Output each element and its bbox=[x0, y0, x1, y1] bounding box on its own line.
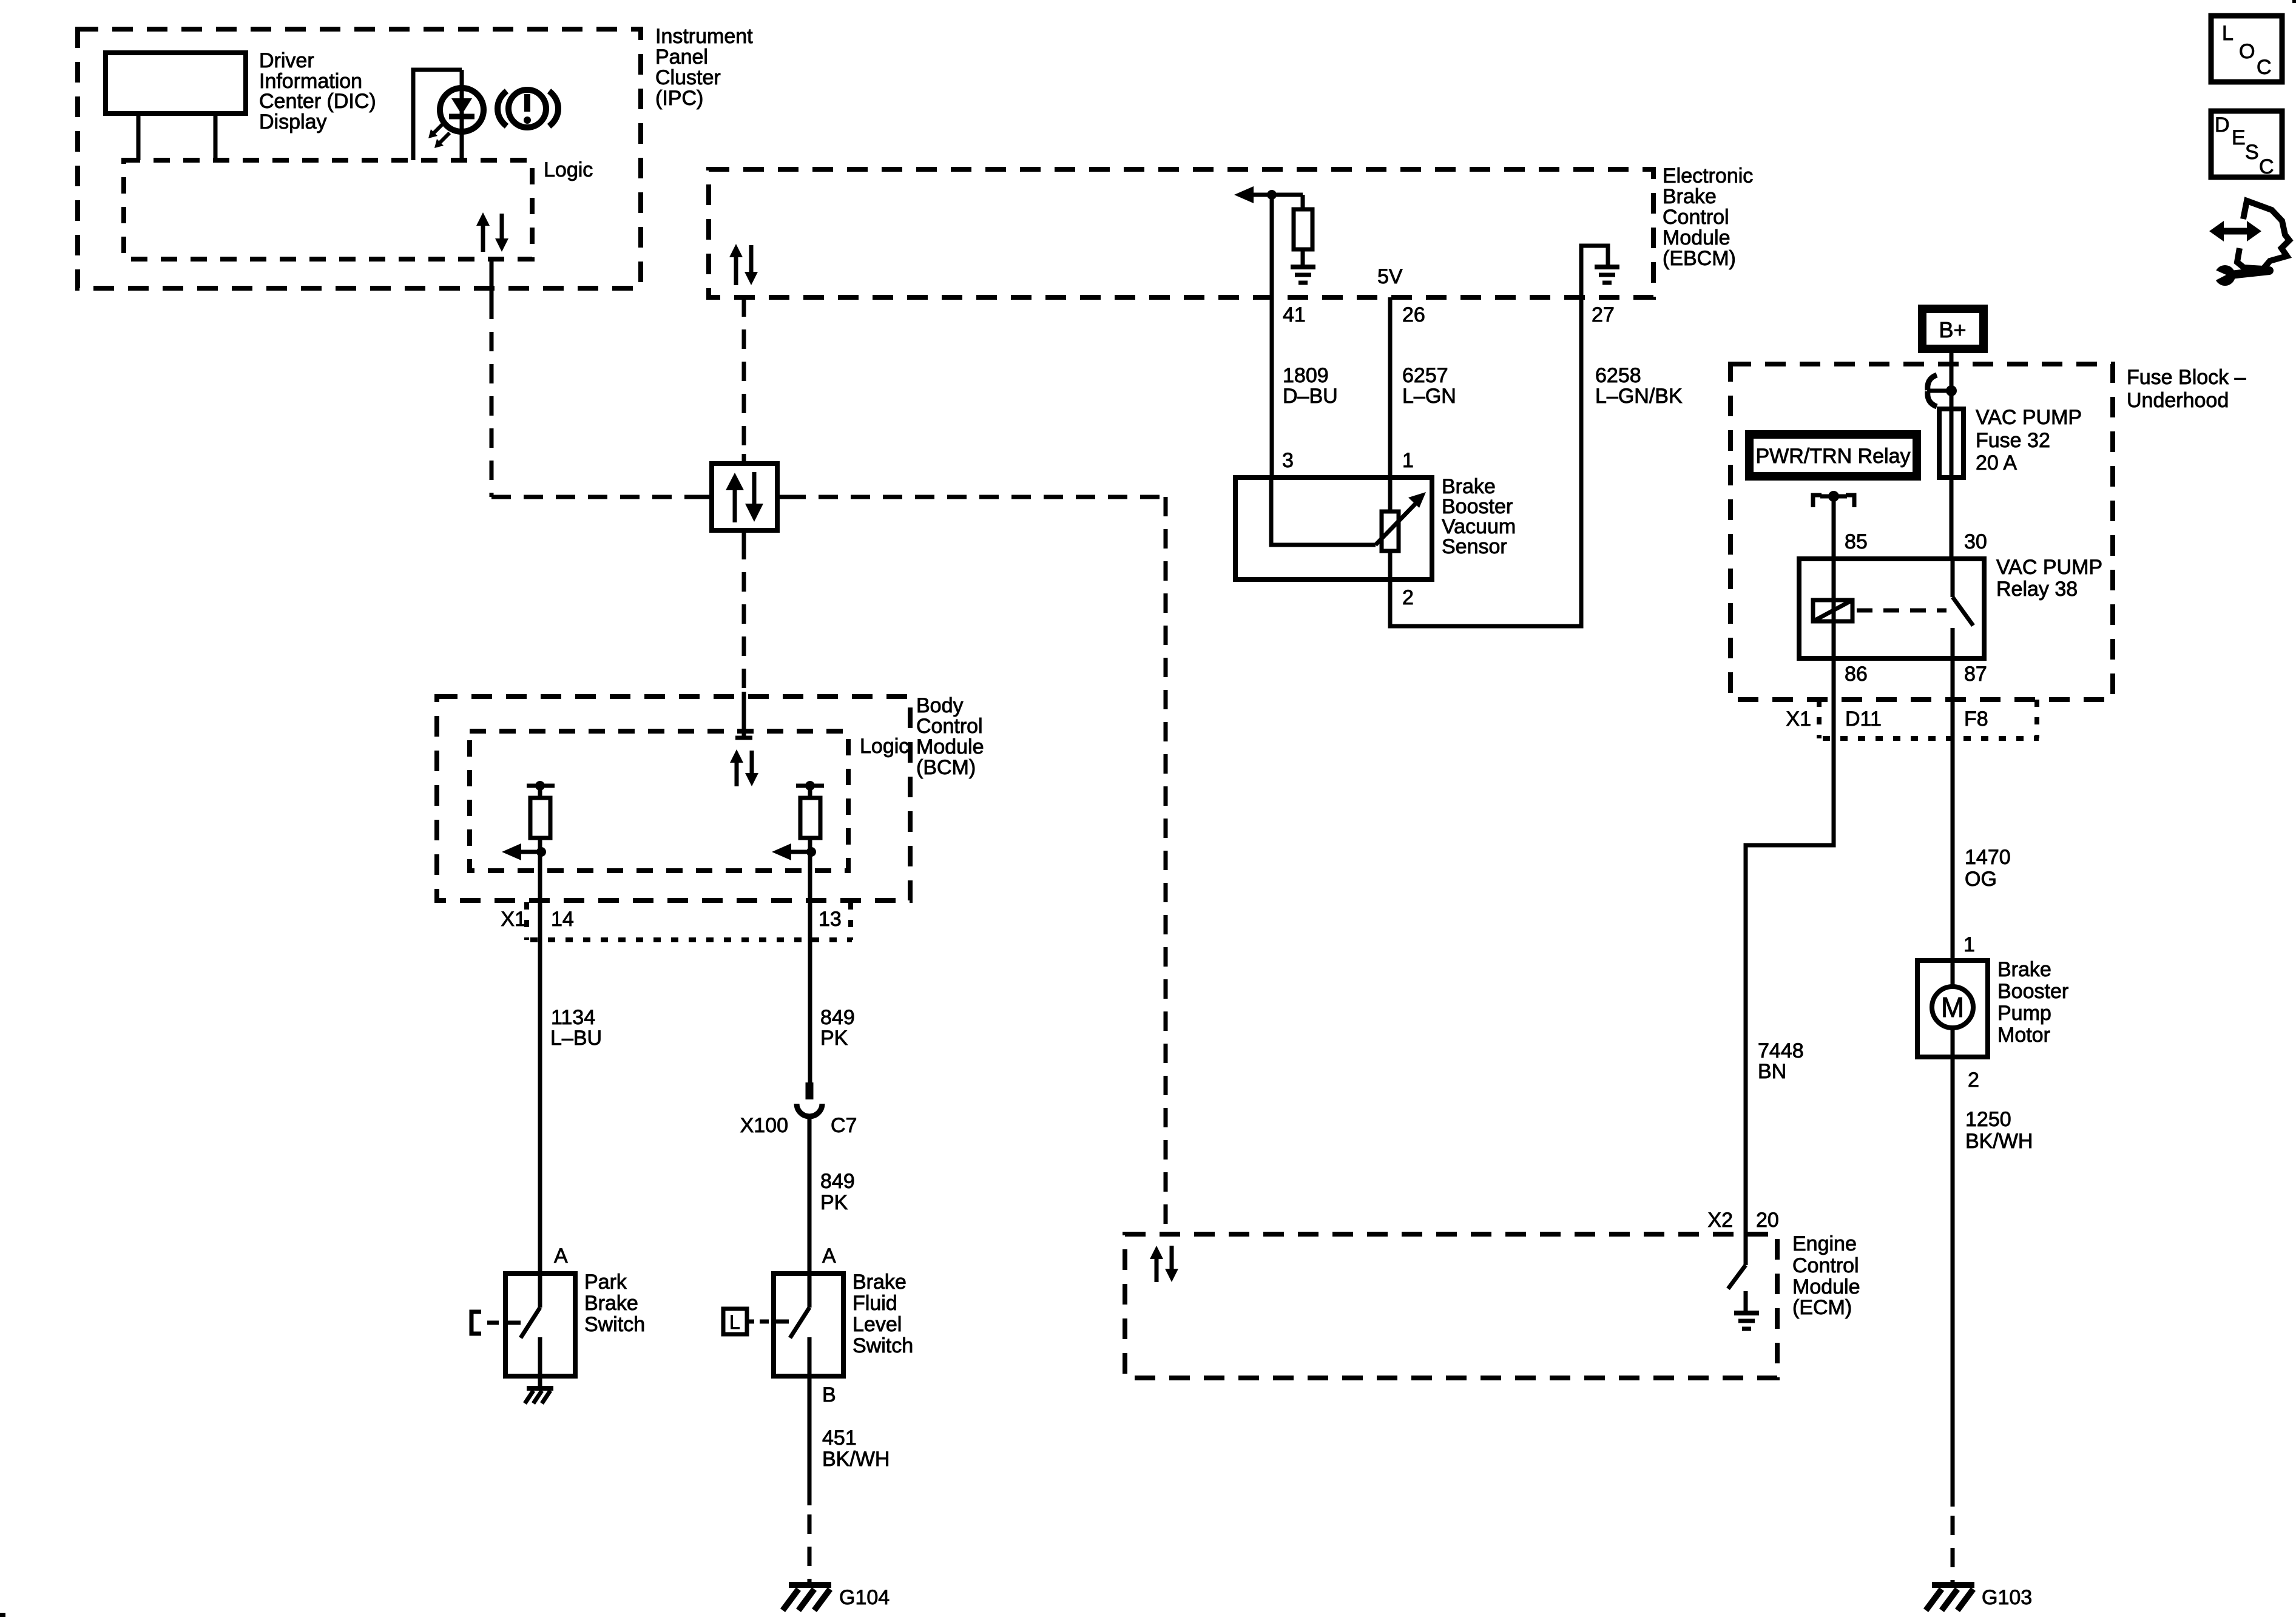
label box PWR/TRN Relay bbox=[1749, 434, 1917, 476]
wire serial stub below IPC logic bbox=[490, 259, 494, 300]
logic box inside IPC bbox=[124, 160, 532, 259]
wire 1250 BK/WH motor to G103 bbox=[1951, 1057, 1955, 1507]
svg-text:Motor: Motor bbox=[1997, 1024, 2050, 1047]
svg-text:Booster: Booster bbox=[1997, 980, 2068, 1003]
svg-text:Instrument: Instrument bbox=[655, 25, 753, 48]
LED light emission arrows bbox=[428, 123, 450, 148]
switch S2 Brake Fluid Level Switch bbox=[774, 1274, 843, 1376]
serial data arrows in junction box bbox=[726, 472, 763, 522]
switch S1 Park Brake Switch bbox=[505, 1274, 575, 1376]
wire EBCM internal signal with arrow bbox=[1234, 186, 1303, 297]
pin F8 label bbox=[1964, 707, 1988, 731]
svg-text:41: 41 bbox=[1283, 303, 1306, 326]
svg-text:Park: Park bbox=[584, 1271, 627, 1294]
pin 13 label bbox=[819, 908, 842, 931]
label BCM name bbox=[916, 694, 984, 779]
module box ECM (Engine Control Module) bbox=[1125, 1234, 1777, 1378]
svg-text:Fluid: Fluid bbox=[853, 1292, 897, 1315]
svg-text:849: 849 bbox=[820, 1170, 855, 1193]
pin 2 label sensor bbox=[1402, 586, 1414, 609]
svg-text:X2: X2 bbox=[1707, 1209, 1733, 1232]
variable resistor element sensor bbox=[1382, 478, 1399, 579]
resistor BCM pin13 pull-up bbox=[796, 781, 824, 900]
svg-text:1: 1 bbox=[1963, 933, 1975, 956]
label wire 849 PK lower bbox=[820, 1170, 855, 1214]
svg-text:O: O bbox=[2239, 40, 2255, 63]
label IPC name bbox=[655, 25, 753, 110]
bus bar clip at B+ feed bbox=[1927, 375, 1957, 407]
wire dashed to G103 bbox=[1951, 1516, 1955, 1586]
label wire 1250 BK/WH bbox=[1965, 1108, 2033, 1153]
svg-text:L–GN/BK: L–GN/BK bbox=[1595, 385, 1683, 408]
wire 1470 OG relay pin87 to motor bbox=[1951, 658, 1955, 960]
svg-text:D: D bbox=[2215, 113, 2230, 137]
scan artifact dot top-right bbox=[2292, 0, 2296, 3]
svg-text:D11: D11 bbox=[1845, 707, 1882, 731]
svg-text:E: E bbox=[2232, 126, 2246, 149]
level sensor symbol [L] bbox=[723, 1309, 769, 1334]
svg-text:Logic: Logic bbox=[544, 158, 593, 181]
label Fuse Block Underhood bbox=[2127, 366, 2246, 412]
svg-text:20: 20 bbox=[1756, 1209, 1779, 1232]
splice/junction box serial data bbox=[703, 454, 786, 540]
svg-text:C: C bbox=[2259, 155, 2274, 178]
svg-text:1809: 1809 bbox=[1283, 364, 1329, 387]
svg-text:Fuse Block –: Fuse Block – bbox=[2127, 366, 2246, 389]
svg-text:27: 27 bbox=[1592, 303, 1615, 326]
svg-text:849: 849 bbox=[820, 1006, 855, 1029]
svg-text:Brake: Brake bbox=[1997, 958, 2051, 981]
svg-text:3: 3 bbox=[1282, 449, 1294, 472]
pin 87 label bbox=[1964, 663, 1987, 686]
svg-text:Sensor: Sensor bbox=[1442, 535, 1507, 558]
wire 1134 L-BU BCM pin14 to park brake switch bbox=[538, 900, 542, 1274]
pin 3 label sensor bbox=[1282, 449, 1294, 472]
wire B+ to fuse 32 bbox=[1950, 353, 1954, 559]
svg-text:A: A bbox=[554, 1244, 568, 1268]
module box BCM (Body Control Module) bbox=[437, 697, 910, 900]
svg-text:451: 451 bbox=[822, 1426, 857, 1450]
sensor internal loop wire bbox=[1271, 478, 1376, 545]
logic box inside BCM bbox=[470, 731, 848, 871]
svg-text:Center (DIC): Center (DIC) bbox=[259, 90, 376, 113]
label C7 bbox=[831, 1114, 857, 1137]
label X2 connector ECM bbox=[1707, 1209, 1733, 1232]
icon data exchange arrow with wrench bbox=[2209, 201, 2289, 286]
svg-text:Pump: Pump bbox=[1997, 1002, 2051, 1025]
svg-text:Display: Display bbox=[259, 110, 326, 133]
wire 849 PK BCM pin13 to connector bbox=[808, 900, 812, 1084]
svg-text:30: 30 bbox=[1964, 530, 1987, 553]
svg-text:L–GN: L–GN bbox=[1402, 385, 1456, 408]
pin 14 label bbox=[551, 908, 574, 931]
wire 6257 L-GN pin26 to sensor pin1 bbox=[1388, 297, 1393, 478]
svg-text:L: L bbox=[729, 1311, 740, 1333]
pin 2 label motor bbox=[1968, 1068, 1979, 1092]
svg-text:Panel: Panel bbox=[655, 46, 708, 69]
wire dashed to G104 bbox=[808, 1514, 812, 1586]
svg-text:Logic: Logic bbox=[860, 735, 909, 758]
label wire 7448 BN bbox=[1758, 1039, 1804, 1083]
svg-text:X1: X1 bbox=[1786, 707, 1811, 731]
svg-text:(EBCM): (EBCM) bbox=[1663, 247, 1736, 270]
svg-text:Level: Level bbox=[853, 1313, 902, 1336]
connector X1 band fuse block bbox=[1819, 700, 2039, 738]
pin 86 label bbox=[1845, 663, 1868, 686]
ground internal EBCM (pin41 pull resistor) bbox=[1291, 267, 1315, 283]
wire serial dashed horizontal right to ECM drop bbox=[786, 495, 1166, 499]
relay switch contact bbox=[1953, 559, 1973, 658]
svg-text:F8: F8 bbox=[1964, 707, 1988, 731]
wire serial data dashed horizontal left bbox=[491, 495, 704, 499]
switch low-side driver ECM bbox=[1728, 1234, 1746, 1311]
wire serial dashed junction box to BCM bbox=[742, 540, 746, 692]
sensor box Brake Booster Vacuum Sensor bbox=[1235, 478, 1432, 579]
label EBCM name bbox=[1663, 164, 1753, 270]
svg-text:5V: 5V bbox=[1377, 265, 1403, 288]
wire LED hook from logic bbox=[413, 70, 462, 160]
svg-text:L–BU: L–BU bbox=[550, 1027, 602, 1050]
label Logic (BCM) bbox=[860, 735, 909, 758]
ground G104 bbox=[783, 1585, 831, 1610]
svg-text:BK/WH: BK/WH bbox=[1965, 1130, 2033, 1153]
pin 30 label bbox=[1964, 530, 1987, 553]
svg-text:Module: Module bbox=[1792, 1275, 1860, 1298]
label wire 1470 OG bbox=[1965, 846, 2011, 891]
svg-text:Module: Module bbox=[1663, 226, 1730, 249]
svg-text:Brake: Brake bbox=[1663, 185, 1717, 208]
svg-text:X1: X1 bbox=[501, 908, 526, 931]
motor M1 Brake Booster Pump Motor bbox=[1917, 960, 1988, 1057]
svg-text:2: 2 bbox=[1968, 1068, 1979, 1092]
svg-text:OG: OG bbox=[1965, 868, 1997, 891]
wire 7448 BN relay pin86 to ECM bbox=[1746, 658, 1834, 1234]
svg-text:6257: 6257 bbox=[1402, 364, 1448, 387]
svg-text:14: 14 bbox=[551, 908, 574, 931]
svg-text:C: C bbox=[2257, 56, 2272, 79]
serial data arrows ECM bbox=[1150, 1246, 1178, 1282]
svg-text:(ECM): (ECM) bbox=[1792, 1296, 1852, 1319]
svg-text:(BCM): (BCM) bbox=[916, 756, 976, 779]
label wire 6257 L-GN bbox=[1402, 364, 1456, 408]
relay K38 VAC PUMP Relay 38 box bbox=[1799, 559, 1984, 658]
svg-text:86: 86 bbox=[1845, 663, 1868, 686]
variable resistor arrow sensor bbox=[1376, 492, 1426, 545]
pin 85 label bbox=[1845, 530, 1868, 553]
scan artifact dot bottom-left bbox=[0, 1613, 5, 1617]
wire serial data dashed IPC down bbox=[490, 300, 494, 497]
wire 849 PK connector to fluid switch bbox=[808, 1116, 812, 1274]
module box Fuse Block Underhood bbox=[1730, 364, 2113, 700]
svg-text:PK: PK bbox=[820, 1027, 848, 1050]
label 5V net bbox=[1377, 265, 1403, 288]
svg-text:6258: 6258 bbox=[1595, 364, 1641, 387]
ground internal ECM bbox=[1734, 1313, 1759, 1329]
svg-text:13: 13 bbox=[819, 908, 842, 931]
module box IPC (Instrument Panel Cluster) bbox=[78, 29, 641, 288]
label wire 6258 L-GN/BK bbox=[1595, 364, 1683, 408]
svg-text:Fuse 32: Fuse 32 bbox=[1976, 429, 2050, 452]
svg-text:S: S bbox=[2245, 141, 2259, 164]
label X1 connector fuse block bbox=[1786, 707, 1811, 731]
wire sensor pin2 to EBCM pin27 bbox=[1390, 297, 1581, 626]
pin A label park brake switch bbox=[554, 1244, 568, 1268]
svg-text:B: B bbox=[822, 1383, 836, 1406]
fuse F32 VAC PUMP Fuse 32 20A bbox=[1939, 409, 1963, 478]
svg-text:Relay 38: Relay 38 bbox=[1996, 578, 2078, 601]
svg-text:2: 2 bbox=[1402, 586, 1414, 609]
svg-text:Brake: Brake bbox=[853, 1271, 907, 1294]
svg-text:G103: G103 bbox=[1982, 1586, 2032, 1609]
resistor BCM pin14 pull-up bbox=[527, 781, 555, 900]
svg-text:PK: PK bbox=[820, 1191, 848, 1214]
svg-text:Switch: Switch bbox=[853, 1334, 913, 1357]
label Logic (IPC) bbox=[544, 158, 593, 181]
LED brake indicator lamp bbox=[440, 70, 484, 160]
relay coil bbox=[1813, 600, 1852, 621]
svg-text:BK/WH: BK/WH bbox=[822, 1448, 890, 1471]
wire serial dashed EBCM to junction box bbox=[742, 297, 746, 454]
pin A label fluid level switch bbox=[822, 1244, 836, 1268]
wire 451 BK/WH to G104 bbox=[808, 1376, 812, 1505]
label G104 bbox=[839, 1586, 890, 1609]
svg-text:Control: Control bbox=[916, 715, 983, 738]
svg-text:X100: X100 bbox=[740, 1114, 788, 1137]
module box EBCM (Electronic Brake Control Module) bbox=[709, 169, 1653, 297]
label sensor name bbox=[1442, 475, 1516, 558]
brake warning indicator symbol ((!)) bbox=[498, 90, 558, 127]
svg-text:20 A: 20 A bbox=[1976, 451, 2017, 474]
wire DIC lead left bbox=[137, 113, 141, 160]
svg-text:VAC PUMP: VAC PUMP bbox=[1996, 556, 2102, 579]
svg-text:(IPC): (IPC) bbox=[655, 87, 703, 110]
pin 1 label motor bbox=[1963, 933, 1975, 956]
signal arrow BCM pin14 bbox=[502, 843, 546, 860]
pin 27 label bbox=[1592, 303, 1615, 326]
svg-text:26: 26 bbox=[1402, 303, 1425, 326]
svg-text:L: L bbox=[2222, 22, 2234, 45]
svg-text:Body: Body bbox=[916, 694, 964, 717]
label Park Brake Switch bbox=[584, 1271, 645, 1336]
svg-text:Switch: Switch bbox=[584, 1313, 645, 1336]
power symbol B+ bbox=[1922, 309, 1984, 349]
wire serial dashed vertical to ECM bbox=[1164, 497, 1168, 1234]
pin 20 label bbox=[1756, 1209, 1779, 1232]
pin 26 label bbox=[1402, 303, 1425, 326]
relay actuation dashed link bbox=[1857, 609, 1947, 613]
label wire 1134 L-BU bbox=[550, 1006, 602, 1050]
svg-text:C7: C7 bbox=[831, 1114, 857, 1137]
svg-text:BN: BN bbox=[1758, 1060, 1786, 1083]
svg-text:1250: 1250 bbox=[1965, 1108, 2011, 1131]
svg-text:Module: Module bbox=[916, 735, 984, 758]
pin B label fluid level switch bbox=[822, 1383, 836, 1406]
svg-text:Electronic: Electronic bbox=[1663, 164, 1753, 187]
wire DIC lead right bbox=[214, 113, 218, 160]
node junction dot EBCM pin41 net bbox=[1267, 190, 1277, 200]
label wire 451 BK/WH bbox=[822, 1426, 890, 1471]
label DIC display bbox=[259, 49, 376, 133]
label Brake Booster Pump Motor bbox=[1997, 958, 2068, 1047]
signal arrow BCM pin13 bbox=[772, 843, 816, 860]
ground G103 bbox=[1926, 1585, 1974, 1610]
icon LOC box bbox=[2211, 16, 2282, 82]
serial data arrows EBCM bbox=[729, 244, 758, 285]
svg-text:Underhood: Underhood bbox=[2127, 389, 2229, 412]
svg-text:Cluster: Cluster bbox=[655, 66, 721, 89]
label ECM name bbox=[1792, 1232, 1860, 1319]
label VAC PUMP Relay 38 bbox=[1996, 556, 2102, 601]
actuator bracket park brake switch bbox=[471, 1312, 499, 1334]
pin 41 label bbox=[1283, 303, 1306, 326]
serial data arrows IPC bbox=[476, 212, 508, 252]
svg-text:B+: B+ bbox=[1939, 317, 1966, 342]
label G103 bbox=[1982, 1586, 2032, 1609]
svg-text:A: A bbox=[822, 1244, 836, 1268]
svg-text:Engine: Engine bbox=[1792, 1232, 1857, 1255]
bus bar clip under PWR/TRN relay bbox=[1813, 491, 1854, 507]
wire serial stub into BCM logic bbox=[735, 692, 752, 738]
connector X1 band BCM bbox=[527, 902, 852, 940]
label X100 bbox=[740, 1114, 788, 1137]
DIC display U1 box bbox=[106, 53, 246, 113]
resistor pull-up EBCM bbox=[1294, 195, 1312, 265]
wire PWR/TRN feed to relay coil pin85 bbox=[1832, 496, 1836, 658]
svg-text:7448: 7448 bbox=[1758, 1039, 1804, 1062]
ground chassis below park brake switch bbox=[525, 1376, 553, 1403]
wire 1809 D-BU pin41 to sensor pin3 bbox=[1270, 297, 1274, 478]
svg-text:Brake: Brake bbox=[584, 1292, 638, 1315]
svg-text:D–BU: D–BU bbox=[1283, 385, 1338, 408]
ground internal EBCM pin27 bbox=[1581, 246, 1619, 297]
svg-text:1: 1 bbox=[1402, 449, 1414, 472]
svg-text:M: M bbox=[1941, 991, 1964, 1023]
svg-text:Driver: Driver bbox=[259, 49, 314, 72]
svg-text:PWR/TRN Relay: PWR/TRN Relay bbox=[1755, 445, 1910, 468]
serial data arrows BCM bbox=[730, 749, 758, 786]
pin 1 label sensor bbox=[1402, 449, 1414, 472]
label wire 1809 D-BU bbox=[1283, 364, 1338, 408]
svg-text:87: 87 bbox=[1964, 663, 1987, 686]
svg-text:85: 85 bbox=[1845, 530, 1868, 553]
inline connector X100 C7 bbox=[797, 1082, 822, 1116]
svg-text:1134: 1134 bbox=[551, 1006, 595, 1029]
label X1 connector BCM bbox=[501, 908, 526, 931]
svg-text:Control: Control bbox=[1663, 206, 1729, 229]
svg-text:Control: Control bbox=[1792, 1254, 1859, 1277]
svg-text:1470: 1470 bbox=[1965, 846, 2011, 869]
label Brake Fluid Level Switch bbox=[853, 1271, 913, 1357]
icon DESC box bbox=[2211, 111, 2282, 178]
svg-text:VAC PUMP: VAC PUMP bbox=[1976, 406, 2082, 429]
svg-text:G104: G104 bbox=[839, 1586, 890, 1609]
label VAC PUMP Fuse 32 20 A bbox=[1976, 406, 2082, 474]
label wire 849 PK upper bbox=[820, 1006, 855, 1050]
pin D11 label bbox=[1845, 707, 1882, 731]
